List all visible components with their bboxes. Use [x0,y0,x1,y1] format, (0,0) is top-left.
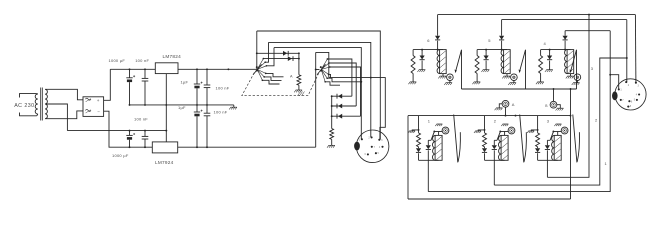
svg-text:4: 4 [379,146,381,149]
junction S1a diode branch [256,52,258,54]
contact K5 arm [519,50,526,89]
jack K1 [442,127,449,134]
junction K5 bus b [501,49,503,51]
wire S1b contact 5 to inner loop [327,78,361,82]
svg-text:1000 µF: 1000 µF [109,58,126,63]
wire contact K2 tie [500,131,508,133]
svg-text:4: 4 [636,93,638,96]
jack B label [545,104,548,108]
svg-text:7: 7 [374,146,376,149]
junction K1 feed [418,129,420,131]
wire net1 to connector pin [610,75,619,90]
wire coil K4 to ground [570,74,572,77]
junction K3 feed [537,129,539,131]
wire S1a open stub 6 [262,80,279,84]
ground jack K1 [435,124,442,126]
jack A label [512,102,515,107]
junction bus riser [570,88,572,90]
svg-text:100 nF: 100 nF [214,110,228,115]
rotary switch S1a contacts [257,58,267,81]
wire coil K3 top [557,132,559,136]
wire 0V lower rail [67,130,166,132]
wire enclosure right [570,89,572,199]
junction mid rail cap2 [144,104,146,106]
diode relay K2 b [492,140,497,185]
junction mid rail cap1 [129,104,131,106]
transformer T1 secondary winding [45,89,47,118]
svg-text:1000 µF: 1000 µF [112,153,129,158]
svg-text:5: 5 [634,99,636,102]
diode relay K1 a [416,148,421,160]
wire coil K6 to ground [442,74,444,77]
junction K5 bus a [485,49,487,51]
svg-text:3: 3 [638,84,640,87]
ground coil K6 [438,76,446,78]
diode relay K2 a [482,148,487,160]
ground resistor K6 [408,82,416,84]
junction S1b feed [315,69,317,71]
junction K6 bus a [421,49,423,51]
coil relay K3 [552,135,562,160]
ground motor K5 [508,81,516,86]
capacitor C8 100nF [204,105,211,147]
wire enclosure bottom [408,198,571,200]
wire K1 bottom link [419,159,439,161]
bridge rectifier AC symbol 2 [85,109,91,113]
capacitor C7 1uF [194,105,203,147]
wire S1b contact 3 down [330,67,361,116]
resistor R1 [297,59,301,90]
jack K2 [508,127,515,134]
diode relay K6 feed [435,36,440,50]
junction rail net6 tap [588,14,590,16]
wire secondary top to bridge input 1 [45,89,83,100]
wire -24V riser to S1b [316,52,320,147]
rotary switch S1b hub [320,66,322,72]
wire relay K1 feed [418,116,420,130]
diode D4 [332,104,357,109]
capacitor C8 label [214,110,228,115]
junction crossing middle loop [370,77,372,79]
ground R1 [294,90,302,92]
resistor relay K4 [539,50,543,82]
wire S1a open stub 5 [264,77,281,81]
junction diode bus 2 [331,105,333,107]
jack A ground [495,104,503,110]
svg-text:8: 8 [630,105,632,108]
connector J1 body [356,130,389,163]
wire +24V output rail [178,68,257,70]
wire middle loop [269,42,371,137]
resistor R2 [330,129,334,146]
linkage dashed switch gang [242,73,319,96]
junction inner loop tap [360,81,362,83]
resistor R1 label [290,74,293,78]
contact K1 post [454,115,458,163]
connector J2 key [612,91,618,100]
regulator U1 LM7824 body [155,63,178,74]
svg-text:1: 1 [620,89,622,92]
wire bridge minus to bottom rail [104,111,153,147]
junction output cap 7 [196,146,198,148]
ground motor K6 [444,81,452,86]
relay K5 label [488,38,491,43]
svg-text:1: 1 [428,118,431,123]
junction lower rail cap6 [144,130,146,132]
wire AC neutral to transformer [20,113,37,116]
wire diode bus [331,96,333,128]
wire relay K5 bus [477,49,507,51]
capacitor C4 100nF [204,69,211,105]
bridge rectifier plus terminal [97,98,100,103]
wire S1b contact 2 down [329,63,356,106]
junction bus stub [515,115,517,117]
coil relay K1 [432,135,442,160]
svg-text:3: 3 [547,118,550,123]
rotary switch S1b wiper arm [317,64,326,75]
regulator U1 ground pin [165,74,167,131]
junction bottom rail cap5 [129,146,131,148]
wire -24V output rail [178,146,316,148]
capacitor C5 1000uF [126,131,135,148]
ground diode K4 [545,70,553,72]
connector J1 key [354,142,360,151]
wire relay K5 feed [501,20,503,36]
svg-text:1µF: 1µF [181,80,189,85]
junction net2 on pin drop [626,57,628,59]
bridge rectifier B1 body [83,97,104,117]
wire net3 rail [547,15,589,178]
wire secondary center tap to 0V rail [45,104,67,131]
wire S1a riser to outer loop [256,31,258,69]
connector J1 pins [359,136,384,155]
ground coil K4 [566,76,574,78]
jack B [550,101,557,108]
ground K2 stub [474,131,481,133]
connector J2 pins [618,81,640,108]
junction output cap 4 [206,68,208,70]
wire S1b contact 1 down [327,59,352,96]
coil relay K2 [498,135,508,160]
wire 0V upper rail [130,104,234,106]
wire K1 gnd stub [412,130,418,131]
regulator U2 label [155,160,174,165]
svg-text:6: 6 [427,38,430,43]
diode relay K5 snubber [484,50,489,70]
resistor relay K5 [475,50,479,82]
rotary switch S1a hub [256,66,258,72]
wire relay K6 feed [437,15,439,36]
wire secondary bottom to bridge input 2 [45,111,83,119]
junction mid rail cap3 [196,104,198,106]
diode relay K6 snubber [420,50,425,70]
wire S1b contact 4 to DIN jog [329,74,386,139]
wire relay K3 feed [537,116,539,130]
svg-text:1: 1 [359,139,361,142]
contact K6 arm [455,50,462,89]
net2 label [595,117,598,122]
coil relay K4 [565,50,574,74]
ground motor K4 [572,81,580,86]
junction K2 feed [484,129,486,131]
regulator U2 LM7924 body [152,142,177,153]
ground K3 stub [527,131,534,133]
resistor relay K3 [536,130,540,148]
diode relay K1 b [426,140,431,191]
capacitor C7 label [178,105,186,110]
connector J2 body [615,79,646,110]
wire S1a contact 3 to inner loop [266,48,274,66]
ground K1 stub [408,131,415,133]
wire relay K4 bus [541,49,571,51]
capacitor C1 label [109,58,126,63]
junction jack A on bus [505,115,507,117]
svg-text:LM7924: LM7924 [155,160,174,165]
relay K2 label [494,118,497,123]
capacitor C1 1000uF [126,69,135,105]
diode D3 [332,94,352,99]
svg-text:3: 3 [381,139,383,142]
junction K6 bus b [437,49,439,51]
wire rail net6 [438,14,636,16]
jack K3 [561,127,568,134]
junction diode bus 3 [331,115,333,117]
wire outer loop [257,31,381,140]
junction input cap 1 [129,68,131,70]
rotary switch S1b contacts [321,58,330,83]
wire enclosure left [407,116,409,199]
wire S1a open stub 4 [266,73,284,76]
diode D5 [332,114,361,119]
wire S1a diode branch upper [257,52,300,59]
coil relay K6 [437,50,446,74]
diode relay K4 snubber [547,50,552,70]
ground 0V rail [229,105,237,110]
capacitor C6 label [134,117,148,122]
wire top contacts bus [462,88,577,90]
svg-text:7: 7 [622,99,624,102]
resistor relay K6 [411,50,415,82]
svg-text:2: 2 [595,117,598,122]
ground diode K5 [481,70,489,72]
svg-text:6: 6 [631,100,633,103]
contact K3 arm [577,132,579,162]
wire net1 rail [428,31,610,192]
svg-text:6: 6 [365,153,367,156]
capacitor C2 label [135,58,149,63]
regulator U2 ground pin [165,131,167,142]
wire bridge plus to top rail [104,69,111,100]
transformer T1 primary winding [35,94,38,116]
bridge rectifier AC symbol 1 [85,98,91,102]
jack B stem [553,89,555,101]
svg-text:5: 5 [488,38,491,43]
capacitor C6 100nF [142,131,149,148]
motor K4 [574,74,581,81]
junction output cap 8 [206,146,208,148]
junction enclosure bus [570,115,572,117]
wire coil K2 top [504,132,506,136]
capacitor C5 label [112,153,129,158]
svg-text:4: 4 [544,41,547,46]
svg-text:B: B [545,104,548,108]
svg-text:5: 5 [378,152,380,155]
svg-text:100 nF: 100 nF [135,58,149,63]
jack A [502,100,509,107]
junction jack B stem [553,88,555,90]
junction lower rail cap5 [129,130,131,132]
svg-text:LM7824: LM7824 [163,54,182,59]
diode relay K5 feed [499,36,504,50]
svg-text:100 nF: 100 nF [134,117,148,122]
wire rail net5 [502,19,627,21]
junction bottom rail cap6 [144,146,146,148]
wire relay K4 feed [564,31,566,36]
svg-text:AC 230: AC 230 [14,103,34,109]
wire raw positive rail [110,68,155,70]
wire net6 drop [634,15,637,83]
ground resistor K4 [536,82,544,84]
relay K4 label [544,41,547,46]
capacitor C3 label [181,80,189,85]
wire AC live to transformer [20,94,37,98]
diode D1 [283,51,288,56]
wire rail net4 [565,30,610,32]
rotary switch S1a wiper arm [253,64,262,75]
svg-text:100 nF: 100 nF [216,86,230,91]
capacitor C2 100nF [142,69,149,105]
resistor relay K2 [483,130,487,148]
junction lower rail riser [165,130,167,132]
motor K5 [511,74,518,81]
wire net2 rail [494,58,627,185]
relay K6 label [427,38,430,43]
capacitor C3 1uF [194,69,203,105]
diode D2 [288,56,293,61]
ground jack K2 [501,124,508,126]
contact K3 post [573,115,577,163]
ground R2 [327,145,335,147]
svg-text:1µF: 1µF [178,105,186,110]
wire relay K2 feed [484,116,486,130]
wire inner loop [274,48,361,140]
junction diode bus 1 [331,95,333,97]
wire K3 gnd stub [531,130,537,131]
wire contact K3 tie [553,131,561,133]
junction U1 ground on mid rail [165,104,167,106]
diode relay K4 feed [563,36,568,50]
relay K3 label [547,118,550,123]
wire K2 gnd stub [478,130,484,131]
coil relay K5 [501,50,510,74]
relay K3 armature [547,131,554,141]
svg-text:A: A [290,74,293,78]
junction K4 bus a [549,49,551,51]
junction net1 pin branch [609,74,611,76]
contact K2 arm [524,132,526,162]
ground jack K3 [554,124,561,126]
bridge rectifier minus terminal [97,109,100,114]
AC mains source label [14,103,34,109]
wire coil K1 top [438,132,440,136]
wire S1a diode branch lower [263,58,299,60]
wire bottom row bus [408,115,571,117]
svg-text:A: A [512,102,515,107]
transformer T1 core [41,88,43,121]
ground resistor K5 [472,82,480,84]
junction input cap 2 [144,68,146,70]
svg-text:−: − [97,109,100,114]
linkage mark [298,92,305,96]
diode relay K3 a [535,148,540,160]
svg-text:1: 1 [605,161,608,166]
resistor relay K1 [417,130,421,148]
wire net5 drop [626,20,628,82]
svg-text:2: 2 [368,136,370,139]
wire coil K5 to ground [506,74,508,77]
junction top rail tap [227,68,229,70]
wire contact K1 tie [434,131,442,133]
junction output cap 3 [196,68,198,70]
contact K4 arm [570,50,577,89]
wire S1a contact 2 to middle loop [265,42,268,62]
relay K1 label [428,118,431,123]
svg-text:2: 2 [494,118,497,123]
contact K2 post [520,115,524,163]
regulator U1 label [163,54,182,59]
wire relay K6 bus [413,49,443,51]
wire S1b open stub 6 [325,82,340,85]
net3 label [591,66,594,71]
diode relay K3 b [545,140,550,177]
motor K6 [447,74,454,81]
svg-text:+: + [97,98,100,103]
relay K2 armature [494,131,501,141]
ground coil K5 [502,76,510,78]
svg-text:2: 2 [628,84,630,87]
jack A stem [505,107,507,115]
junction mid rail cap4 [206,104,208,106]
svg-text:3: 3 [591,66,594,71]
wire S1b overhead loop [316,52,329,77]
wire K2 bottom link [485,159,505,161]
relay K1 armature [428,131,435,141]
net1 label [605,161,608,166]
contact K1 arm [458,132,460,162]
wire K3 bottom link [538,159,558,161]
junction K4 bus b [564,49,566,51]
capacitor C4 label [216,86,230,91]
jack B ground [556,105,564,111]
ground diode K6 [417,70,425,72]
